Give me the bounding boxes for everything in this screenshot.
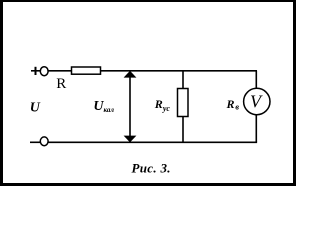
voltage arrow Uкал (124, 71, 137, 143)
terminal bottom (40, 137, 48, 146)
terminal top (40, 67, 48, 76)
wire (101, 70, 258, 72)
svg-text:R: R (56, 76, 66, 92)
svg-text:Рис. 3.: Рис. 3. (132, 160, 171, 175)
wire (182, 117, 184, 143)
wire (255, 71, 257, 89)
wire (30, 141, 40, 143)
wire (48, 70, 71, 72)
resistor R (72, 67, 101, 74)
voltmeter V (244, 88, 270, 114)
wire (255, 115, 257, 143)
wire (49, 141, 258, 143)
plus sign (35, 67, 37, 75)
svg-text:U: U (30, 101, 41, 116)
wire (31, 70, 41, 72)
wire (182, 71, 184, 89)
resistor Rу (178, 89, 189, 117)
